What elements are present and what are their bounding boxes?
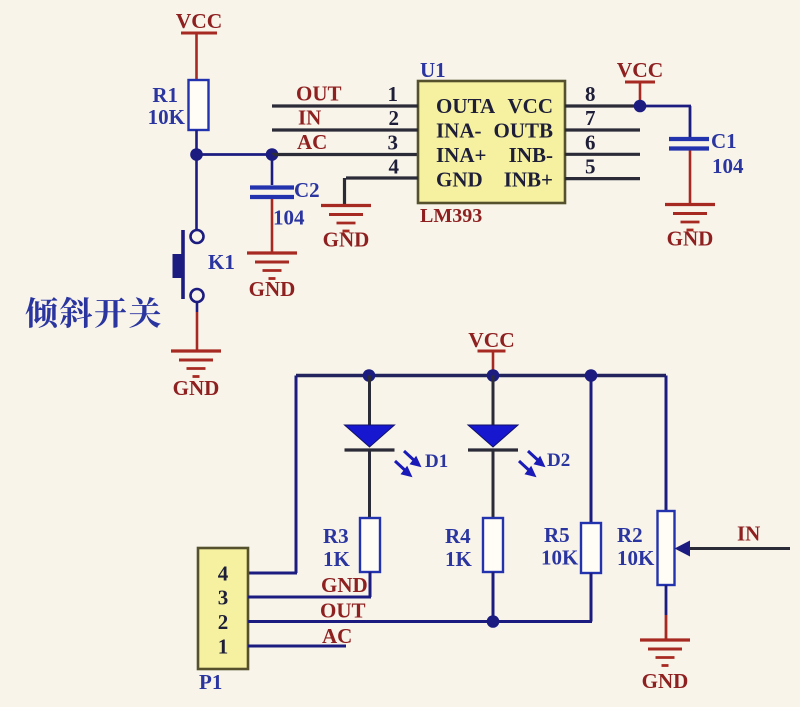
- connector P1: [198, 548, 248, 694]
- ground (C2): [247, 253, 297, 301]
- svg-text:AC: AC: [297, 130, 327, 154]
- svg-text:GND: GND: [667, 227, 714, 251]
- wire R1 to node: [195, 130, 198, 155]
- wire node to C1: [640, 106, 691, 137]
- wire VCC to pin8 node: [639, 82, 642, 106]
- power VCC (top-left): [176, 9, 223, 33]
- pin 6 (INB-) wire: [565, 131, 640, 155]
- svg-text:7: 7: [585, 106, 596, 130]
- wire rail right leg to R2: [665, 376, 668, 512]
- node pin8/C1: [634, 100, 647, 113]
- svg-text:104: 104: [273, 206, 305, 230]
- wire node to C2 node: [197, 153, 273, 156]
- node VCC entry / D2 branch: [487, 369, 500, 382]
- svg-text:AC: AC: [322, 624, 352, 648]
- svg-text:D1: D1: [425, 451, 448, 472]
- svg-text:3: 3: [218, 586, 229, 610]
- svg-text:R4: R4: [445, 524, 471, 548]
- svg-text:104: 104: [712, 154, 744, 178]
- wire R5 to pin2 net: [590, 573, 593, 622]
- wire AC net to U1 pin 3: [272, 153, 418, 156]
- svg-text:VCC: VCC: [468, 328, 515, 352]
- pin 2 (INA-) wire: [272, 106, 418, 130]
- wire VCC to rail: [492, 351, 495, 376]
- node D1 branch: [363, 369, 376, 382]
- svg-text:5: 5: [585, 155, 596, 179]
- svg-text:OUTA: OUTA: [436, 94, 496, 118]
- wire wiper to IN: [689, 547, 790, 550]
- svg-text:10K: 10K: [617, 546, 655, 570]
- svg-text:C1: C1: [711, 129, 737, 153]
- svg-text:INA+: INA+: [436, 143, 486, 167]
- svg-text:IN: IN: [737, 522, 760, 546]
- svg-text:C2: C2: [294, 178, 320, 202]
- pin 3 (INA+) number and label AC: [297, 130, 398, 155]
- wire VCC to R1: [195, 33, 198, 80]
- svg-text:2: 2: [389, 106, 400, 130]
- LED D2: [468, 425, 518, 450]
- capacitor C2: [250, 155, 320, 230]
- svg-text:R1: R1: [152, 83, 178, 107]
- svg-text:INA-: INA-: [436, 119, 482, 143]
- svg-text:8: 8: [585, 82, 596, 106]
- ground (R2): [640, 640, 690, 693]
- wire C2 to ground: [271, 199, 274, 252]
- wire rail to D1: [368, 376, 371, 426]
- LED D1 arrows and label: [395, 451, 448, 477]
- wire P1 pin 2 net: [248, 620, 592, 623]
- wire rail to R5: [590, 376, 593, 524]
- LED D2 arrows and label: [519, 450, 570, 477]
- resistor R4: [445, 518, 503, 572]
- svg-text:1: 1: [218, 635, 229, 659]
- svg-text:GND: GND: [436, 168, 483, 192]
- svg-text:P1: P1: [199, 670, 222, 694]
- wire D2 to R4: [492, 450, 495, 518]
- capacitor C1: [669, 129, 744, 178]
- wire K1 to ground: [196, 302, 199, 312]
- svg-text:GND: GND: [321, 573, 368, 597]
- svg-text:10K: 10K: [148, 105, 186, 129]
- wire R2 to ground: [665, 585, 668, 640]
- node R1/K1/AC junction: [190, 148, 203, 161]
- svg-text:OUT: OUT: [296, 82, 342, 106]
- svg-text:2: 2: [218, 610, 229, 634]
- svg-text:GND: GND: [642, 669, 689, 693]
- pin 4 (GND) wire: [345, 155, 419, 205]
- pin 7 (OUTB) wire: [565, 106, 640, 130]
- svg-text:R2: R2: [617, 523, 643, 547]
- label tilt switch (Chinese): [26, 297, 161, 328]
- svg-text:1K: 1K: [445, 547, 473, 571]
- svg-text:R3: R3: [323, 524, 349, 548]
- pin 5 (INB+) wire: [565, 155, 640, 179]
- ground (K1): [171, 351, 221, 400]
- svg-text:10K: 10K: [541, 546, 579, 570]
- node C2 junction: [266, 148, 279, 161]
- svg-text:GND: GND: [323, 228, 370, 252]
- potentiometer R2: [617, 511, 675, 585]
- switch K1: [173, 155, 235, 303]
- wire R3 to P1 pin 3 net: [369, 572, 372, 597]
- wire P1 pin 3 to R3: [248, 596, 371, 599]
- svg-text:GND: GND: [173, 376, 220, 400]
- power VCC (top-right): [617, 58, 664, 82]
- resistor R5: [541, 523, 601, 573]
- svg-text:1K: 1K: [323, 547, 351, 571]
- resistor R3: [323, 518, 380, 572]
- svg-text:VCC: VCC: [508, 94, 554, 118]
- svg-text:INB-: INB-: [509, 143, 553, 167]
- power VCC (bottom): [468, 328, 515, 352]
- wire R4 to pin2 net: [492, 572, 495, 622]
- pin 1 (OUTA) wire: [272, 82, 418, 106]
- node R4 / pin2 net: [487, 615, 500, 628]
- svg-text:R5: R5: [544, 523, 570, 547]
- op-amp U1 LM393 body: [418, 58, 565, 227]
- ground (U1 pin 4): [321, 206, 371, 252]
- svg-text:IN: IN: [298, 106, 321, 130]
- wire C1 to ground: [689, 151, 692, 205]
- wire P1 pin 1 stub: [248, 645, 346, 648]
- resistor R1: [148, 80, 209, 130]
- svg-text:OUTB: OUTB: [493, 119, 553, 143]
- wire rail left leg to P1 pin 4: [248, 376, 297, 574]
- svg-text:4: 4: [389, 155, 400, 179]
- wire D1 to R3: [368, 450, 371, 518]
- pin 8 (VCC) wire: [565, 82, 640, 106]
- ground (C1): [665, 205, 715, 251]
- wire VCC rail: [296, 374, 666, 377]
- svg-text:D2: D2: [547, 450, 570, 471]
- svg-text:GND: GND: [249, 277, 296, 301]
- svg-text:LM393: LM393: [420, 205, 482, 227]
- svg-text:1: 1: [388, 82, 399, 106]
- LED D1: [345, 425, 395, 450]
- svg-text:U1: U1: [420, 58, 446, 82]
- svg-text:6: 6: [585, 131, 596, 155]
- R2 wiper arrow: [675, 541, 691, 557]
- svg-text:3: 3: [388, 131, 399, 155]
- svg-text:VCC: VCC: [617, 58, 664, 82]
- svg-text:INB+: INB+: [504, 168, 553, 192]
- node R5 branch: [585, 369, 598, 382]
- wire rail to D2: [492, 376, 495, 426]
- svg-text:OUT: OUT: [320, 599, 366, 623]
- svg-text:4: 4: [218, 562, 229, 586]
- svg-text:VCC: VCC: [176, 9, 223, 33]
- svg-text:K1: K1: [208, 250, 235, 274]
